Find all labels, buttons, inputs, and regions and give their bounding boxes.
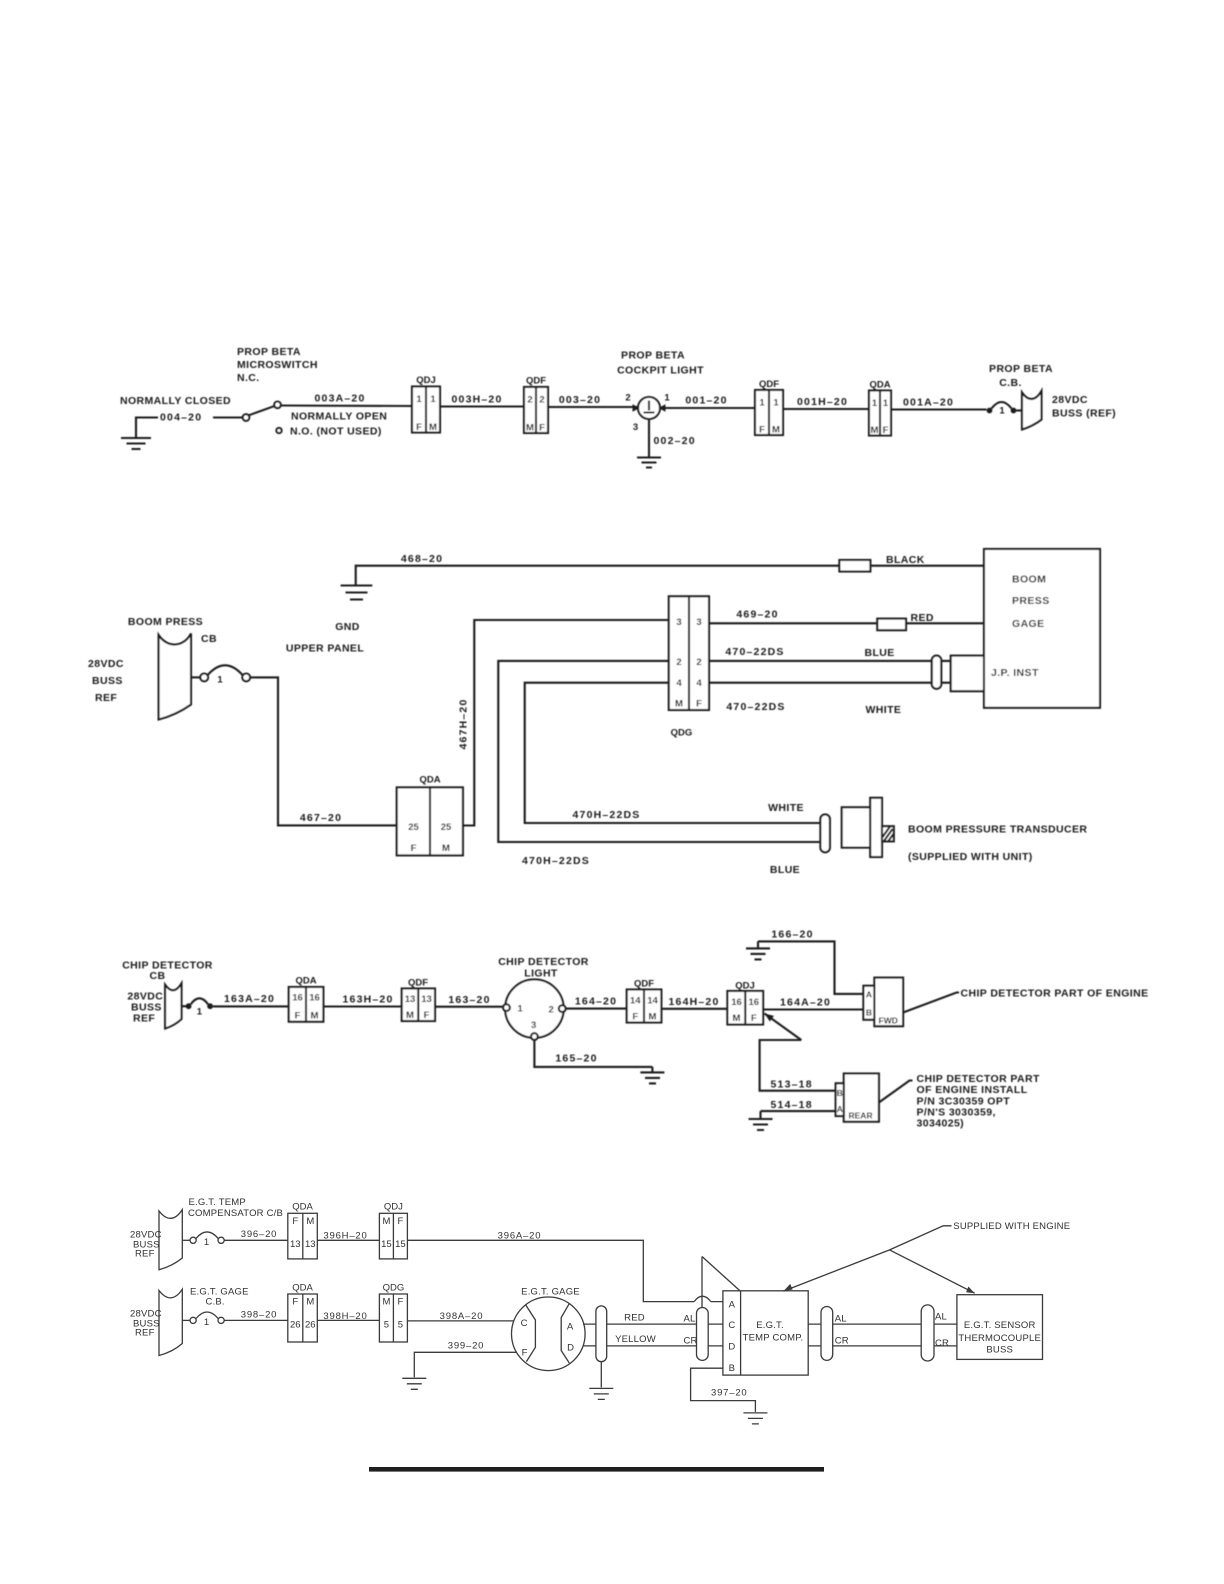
svg-text:398A–20: 398A–20 bbox=[440, 1311, 484, 1322]
wire 398-20 bbox=[224, 1319, 288, 1321]
connector QDA 16/16 bbox=[289, 976, 324, 1022]
svg-text:BOOM PRESS: BOOM PRESS bbox=[128, 616, 203, 628]
svg-text:PRESS: PRESS bbox=[1012, 595, 1050, 607]
svg-text:396H–20: 396H–20 bbox=[323, 1231, 367, 1242]
svg-text:CR: CR bbox=[684, 1336, 698, 1347]
ground (399-20) bbox=[402, 1378, 426, 1389]
E.G.T. SENSOR THERMOCOUPLE BUSS box bbox=[957, 1295, 1043, 1360]
svg-text:1: 1 bbox=[416, 394, 422, 405]
svg-text:470–22DS: 470–22DS bbox=[725, 646, 784, 658]
svg-text:163–20: 163–20 bbox=[448, 994, 490, 1006]
wire hop over shield lead bbox=[694, 1296, 711, 1301]
svg-text:QDA: QDA bbox=[292, 1282, 313, 1293]
svg-text:QDG: QDG bbox=[671, 728, 693, 739]
svg-text:396A–20: 396A–20 bbox=[498, 1231, 542, 1242]
28VDC buss bar ribbon bbox=[1022, 391, 1042, 430]
svg-text:NORMALLY OPEN: NORMALLY OPEN bbox=[291, 411, 387, 423]
svg-text:WHITE: WHITE bbox=[768, 802, 804, 814]
svg-text:3: 3 bbox=[531, 1020, 536, 1031]
svg-text:COCKPIT LIGHT: COCKPIT LIGHT bbox=[617, 365, 704, 377]
svg-text:QDF: QDF bbox=[634, 979, 654, 990]
svg-text:2: 2 bbox=[676, 657, 681, 668]
label CHIP DETECTOR LIGHT bbox=[498, 956, 589, 980]
svg-text:28VDC: 28VDC bbox=[1052, 394, 1088, 406]
svg-text:M: M bbox=[526, 423, 534, 434]
circuit breaker CHIP DETECTOR CB contact 1 bbox=[182, 998, 214, 1017]
svg-text:AL: AL bbox=[835, 1314, 847, 1325]
wire 001H-20 bbox=[783, 408, 869, 410]
svg-text:C: C bbox=[728, 1320, 735, 1331]
wire 002-20 bbox=[648, 419, 650, 457]
svg-text:QDJ: QDJ bbox=[735, 981, 755, 992]
ground (397-20) bbox=[743, 1413, 767, 1424]
svg-text:A: A bbox=[866, 990, 872, 1000]
svg-text:RED: RED bbox=[911, 612, 934, 624]
svg-text:F: F bbox=[411, 843, 417, 854]
svg-text:13: 13 bbox=[290, 1239, 301, 1250]
svg-text:26: 26 bbox=[305, 1319, 316, 1330]
page footer rule bbox=[369, 1467, 824, 1472]
svg-text:2: 2 bbox=[539, 395, 544, 406]
svg-text:16: 16 bbox=[292, 993, 303, 1004]
circuit breaker E.G.T. TEMP COMPENSATOR C/B contact 1 bbox=[182, 1232, 224, 1248]
label GND UPPER PANEL bbox=[286, 621, 364, 655]
svg-text:004–20: 004–20 bbox=[160, 412, 202, 424]
svg-text:467–20: 467–20 bbox=[300, 812, 342, 824]
svg-text:GAGE: GAGE bbox=[1012, 618, 1045, 630]
label PROP BETA COCKPIT LIGHT bbox=[617, 350, 704, 377]
svg-text:C.B.: C.B. bbox=[206, 1297, 225, 1308]
wire 164-20 bbox=[566, 1008, 627, 1010]
svg-text:BUSS: BUSS bbox=[986, 1344, 1013, 1355]
svg-text:B: B bbox=[866, 1008, 872, 1018]
svg-text:4: 4 bbox=[696, 678, 702, 689]
transducer port (hatched) bbox=[882, 826, 894, 841]
svg-text:467H–20: 467H–20 bbox=[458, 698, 470, 749]
svg-text:N.O. (NOT USED): N.O. (NOT USED) bbox=[290, 426, 382, 438]
label 28VDC BUSS REF bbox=[88, 658, 124, 704]
svg-text:J.P. INST: J.P. INST bbox=[991, 667, 1039, 679]
svg-text:M: M bbox=[306, 1216, 314, 1227]
svg-text:E.G.T. TEMP: E.G.T. TEMP bbox=[189, 1197, 246, 1208]
svg-text:MICROSWITCH: MICROSWITCH bbox=[237, 359, 318, 371]
ground (lamp pin 3) bbox=[637, 458, 661, 468]
svg-text:398H–20: 398H–20 bbox=[323, 1311, 367, 1322]
svg-text:F: F bbox=[539, 423, 545, 434]
svg-text:COMPENSATOR C/B: COMPENSATOR C/B bbox=[188, 1208, 283, 1219]
svg-text:M: M bbox=[871, 425, 879, 436]
wire 467H-20 bbox=[463, 620, 669, 826]
svg-text:QDJ: QDJ bbox=[416, 375, 436, 386]
svg-text:M: M bbox=[429, 422, 437, 433]
wire 514-18 bbox=[761, 1110, 836, 1112]
svg-text:C: C bbox=[521, 1318, 528, 1329]
connector QDJ 16/16 bbox=[727, 981, 763, 1025]
svg-text:M: M bbox=[382, 1216, 390, 1227]
svg-text:F: F bbox=[292, 1216, 298, 1227]
label PROP BETA C.B. bbox=[989, 363, 1053, 389]
svg-text:A: A bbox=[729, 1299, 736, 1310]
connector QDJ bbox=[412, 375, 440, 433]
switch N.C. contact bbox=[274, 402, 281, 409]
lamp prop beta cockpit light bbox=[633, 397, 666, 419]
svg-text:LIGHT: LIGHT bbox=[524, 968, 558, 980]
label 28VDC BUSS (REF) bbox=[1052, 394, 1116, 420]
connector QDA 13/13 bbox=[288, 1201, 318, 1259]
switch arm bbox=[249, 406, 275, 415]
label 28VDC BUSS REF bbox=[127, 991, 163, 1025]
svg-text:CHIP DETECTOR PART OF ENGI: CHIP DETECTOR PART OF ENGINE bbox=[961, 988, 1149, 1000]
wire CR: temp comp to sensor bbox=[808, 1345, 957, 1347]
svg-text:PROP BETA: PROP BETA bbox=[989, 363, 1053, 375]
svg-text:1: 1 bbox=[883, 398, 889, 409]
connector shell J.P. INST bbox=[951, 656, 984, 692]
wire red: gage A to temp comp C bbox=[583, 1323, 723, 1325]
svg-text:M: M bbox=[382, 1297, 390, 1308]
temp comp input grommet bbox=[697, 1308, 709, 1361]
wire 003H-20 bbox=[440, 405, 524, 407]
svg-text:398–20: 398–20 bbox=[241, 1310, 278, 1321]
connector REAR (engine install) bbox=[836, 1074, 879, 1122]
wire 397-20 bbox=[691, 1368, 756, 1412]
svg-text:15: 15 bbox=[395, 1239, 406, 1250]
wire 003-20 bbox=[548, 406, 638, 408]
svg-text:QDA: QDA bbox=[295, 976, 316, 987]
wire 468-20 (black) bbox=[356, 566, 984, 585]
connector FWD (engine) bbox=[863, 978, 903, 1027]
transducer flange bbox=[870, 798, 882, 857]
wire 470-22DS white bbox=[709, 682, 951, 684]
svg-text:QDF: QDF bbox=[759, 379, 779, 390]
svg-text:BUSS: BUSS bbox=[92, 675, 123, 687]
svg-text:1: 1 bbox=[872, 398, 878, 409]
ground GND upper panel bbox=[341, 586, 373, 600]
wire 163-20 bbox=[435, 1006, 505, 1008]
svg-text:1: 1 bbox=[204, 1237, 209, 1248]
label CHIP DETECTOR CB bbox=[122, 960, 213, 983]
svg-text:13: 13 bbox=[421, 994, 432, 1005]
svg-text:BLACK: BLACK bbox=[886, 554, 925, 566]
svg-text:REF: REF bbox=[133, 1013, 155, 1025]
svg-text:001–20: 001–20 bbox=[685, 395, 727, 407]
svg-text:QDA: QDA bbox=[419, 775, 440, 786]
svg-text:165–20: 165–20 bbox=[555, 1053, 597, 1065]
28VDC buss bar ribbon (row 1) bbox=[159, 1210, 182, 1270]
svg-text:M: M bbox=[675, 699, 683, 710]
svg-text:1: 1 bbox=[664, 393, 670, 404]
sensor input grommet bbox=[921, 1305, 934, 1361]
28VDC buss bar ribbon bbox=[159, 634, 191, 720]
svg-text:E.G.T. GAGE: E.G.T. GAGE bbox=[521, 1287, 580, 1298]
wire 467-20 bbox=[250, 677, 397, 825]
chip detector light bbox=[503, 979, 565, 1040]
svg-text:3: 3 bbox=[676, 617, 681, 628]
wire 396A-20 bbox=[407, 1240, 723, 1301]
svg-text:BUSS (REF): BUSS (REF) bbox=[1052, 408, 1116, 420]
svg-text:514–18: 514–18 bbox=[771, 1099, 813, 1111]
svg-text:M: M bbox=[306, 1297, 314, 1308]
svg-text:5: 5 bbox=[384, 1319, 389, 1330]
svg-text:M: M bbox=[649, 1012, 657, 1023]
svg-text:1: 1 bbox=[518, 1004, 524, 1015]
svg-text:UPPER PANEL: UPPER PANEL bbox=[286, 643, 364, 655]
svg-text:2: 2 bbox=[527, 395, 532, 406]
connector QDF bbox=[524, 376, 548, 434]
svg-text:QDA: QDA bbox=[292, 1201, 313, 1212]
svg-text:BLUE: BLUE bbox=[865, 647, 895, 659]
svg-text:513–18: 513–18 bbox=[771, 1079, 813, 1091]
svg-text:D: D bbox=[728, 1342, 735, 1353]
shield bead on red wire bbox=[877, 619, 906, 631]
BOOM PRESS GAGE box bbox=[984, 549, 1100, 708]
svg-text:F: F bbox=[424, 1010, 430, 1021]
svg-text:PROP BETA: PROP BETA bbox=[621, 350, 685, 362]
svg-text:3: 3 bbox=[633, 422, 638, 433]
svg-text:BOOM: BOOM bbox=[1012, 574, 1046, 586]
svg-text:D: D bbox=[567, 1342, 574, 1353]
switch N.O. contact bbox=[276, 428, 281, 433]
label 28VDC BUSS REF (row 1) bbox=[130, 1230, 162, 1260]
wire 396H-20 bbox=[317, 1239, 379, 1241]
svg-text:RED: RED bbox=[624, 1312, 645, 1323]
svg-text:CHIP DETECTOR: CHIP DETECTOR bbox=[498, 956, 589, 968]
svg-text:397–20: 397–20 bbox=[711, 1388, 748, 1399]
svg-text:CR: CR bbox=[935, 1338, 949, 1349]
svg-text:QDJ: QDJ bbox=[384, 1201, 403, 1212]
svg-text:WHITE: WHITE bbox=[866, 704, 902, 716]
svg-text:001H–20: 001H–20 bbox=[797, 396, 848, 408]
svg-text:REF: REF bbox=[95, 692, 117, 704]
svg-text:470H–22DS: 470H–22DS bbox=[572, 809, 640, 821]
svg-text:REF: REF bbox=[135, 1249, 155, 1260]
svg-text:F: F bbox=[696, 699, 702, 710]
svg-text:REAR: REAR bbox=[849, 1111, 873, 1121]
circuit breaker BOOM PRESS CB contact 1 bbox=[191, 665, 250, 685]
temp comp output grommet bbox=[821, 1307, 833, 1361]
svg-text:15: 15 bbox=[381, 1239, 392, 1250]
wire 469-20 (red) bbox=[709, 622, 984, 624]
svg-text:164–20: 164–20 bbox=[575, 996, 617, 1008]
svg-text:16: 16 bbox=[731, 997, 742, 1008]
label CHIP DETECTOR PART OF ENGINE INSTALL bbox=[917, 1073, 1040, 1130]
connector QDF 14/14 bbox=[627, 979, 662, 1023]
circuit breaker E.G.T. GAGE C.B. contact 1 bbox=[182, 1312, 224, 1328]
svg-text:F: F bbox=[416, 422, 422, 433]
svg-text:25: 25 bbox=[408, 822, 419, 833]
connector QDF (2nd) bbox=[755, 379, 783, 436]
svg-text:FWD: FWD bbox=[879, 1016, 898, 1026]
svg-text:003A–20: 003A–20 bbox=[314, 393, 365, 405]
svg-text:TEMP COMP.: TEMP COMP. bbox=[743, 1333, 804, 1344]
leader SUPPLIED WITH ENGINE to temp comp bbox=[784, 1226, 952, 1291]
svg-text:CB: CB bbox=[201, 633, 217, 645]
svg-text:16: 16 bbox=[749, 997, 760, 1008]
svg-text:M: M bbox=[311, 1011, 319, 1022]
svg-text:4: 4 bbox=[676, 678, 682, 689]
svg-text:14: 14 bbox=[630, 996, 641, 1007]
svg-text:468–20: 468–20 bbox=[401, 553, 443, 565]
shield diagonal to connector box bbox=[702, 1257, 740, 1292]
svg-text:OF ENGINE INSTALL: OF ENGINE INSTALL bbox=[917, 1084, 1028, 1096]
svg-text:QDF: QDF bbox=[408, 978, 428, 989]
svg-text:1: 1 bbox=[430, 394, 436, 405]
svg-text:002–20: 002–20 bbox=[654, 435, 696, 447]
wire 398H-20 bbox=[317, 1319, 379, 1321]
svg-text:B: B bbox=[729, 1363, 735, 1374]
ground (514-18) bbox=[749, 1111, 773, 1130]
connector QDG bbox=[669, 596, 709, 738]
svg-text:3: 3 bbox=[696, 617, 701, 628]
svg-text:28VDC: 28VDC bbox=[88, 658, 124, 670]
wire 163A-20 bbox=[213, 1005, 289, 1007]
svg-text:2: 2 bbox=[696, 657, 701, 668]
leader arrow from rear harness to QDJ bbox=[765, 1014, 802, 1041]
wire 004-20 bbox=[136, 418, 242, 438]
svg-text:F: F bbox=[295, 1011, 301, 1022]
svg-text:CR: CR bbox=[835, 1336, 849, 1347]
label E.G.T. TEMP COMPENSATOR C/B bbox=[188, 1197, 283, 1219]
label 28VDC BUSS REF (row 2) bbox=[130, 1309, 162, 1339]
svg-text:YELLOW: YELLOW bbox=[615, 1334, 656, 1345]
svg-text:F: F bbox=[759, 425, 765, 436]
circuit breaker PROP BETA C.B. contact 1 bbox=[987, 402, 1022, 417]
svg-text:1: 1 bbox=[999, 406, 1005, 417]
svg-text:16: 16 bbox=[309, 993, 320, 1004]
svg-text:M: M bbox=[442, 843, 450, 854]
gage output grommet bbox=[596, 1306, 607, 1362]
wire yellow: gage D to temp comp D bbox=[583, 1345, 723, 1347]
connector QDA bbox=[869, 380, 891, 437]
svg-text:GND: GND bbox=[335, 621, 360, 633]
svg-text:003–20: 003–20 bbox=[559, 394, 601, 406]
leader to CHIP DETECTOR PART OF ENGINE bbox=[903, 993, 959, 1013]
svg-text:F: F bbox=[397, 1216, 403, 1227]
wire 163H-20 bbox=[323, 1005, 401, 1007]
wire 164H-20 bbox=[661, 1008, 727, 1010]
svg-text:470H–22DS: 470H–22DS bbox=[522, 855, 590, 867]
wire QDG pin4 (white side) bbox=[525, 683, 821, 823]
label PROP BETA MICROSWITCH N.C. bbox=[237, 346, 318, 384]
svg-text:163A–20: 163A–20 bbox=[224, 993, 275, 1005]
svg-text:25: 25 bbox=[441, 822, 452, 833]
leader SUPPLIED WITH ENGINE to sensor bbox=[890, 1250, 975, 1293]
svg-text:1: 1 bbox=[217, 675, 223, 686]
svg-text:BOOM PRESSURE TRANSDUCER: BOOM PRESSURE TRANSDUCER bbox=[908, 824, 1087, 836]
E.G.T. TEMP COMP box bbox=[723, 1291, 808, 1375]
svg-text:NORMALLY CLOSED: NORMALLY CLOSED bbox=[120, 395, 231, 407]
svg-text:CB: CB bbox=[150, 970, 166, 982]
svg-text:3034025): 3034025) bbox=[917, 1118, 965, 1130]
svg-text:399–20: 399–20 bbox=[448, 1340, 485, 1351]
wire AL: temp comp to sensor bbox=[808, 1323, 957, 1325]
svg-text:2: 2 bbox=[625, 393, 630, 404]
svg-text:C.B.: C.B. bbox=[999, 377, 1022, 389]
svg-text:F: F bbox=[751, 1013, 757, 1024]
wire 398A-20 bbox=[407, 1320, 513, 1322]
svg-text:N.C.: N.C. bbox=[237, 372, 260, 384]
switch microswitch common contact bbox=[243, 414, 250, 421]
connector QDG 5/5 bbox=[379, 1282, 407, 1342]
wire 001A-20 bbox=[891, 408, 987, 410]
wire 396-20 bbox=[224, 1239, 288, 1241]
transducer grommet bbox=[820, 814, 830, 852]
svg-text:2: 2 bbox=[549, 1005, 554, 1016]
svg-text:QDA: QDA bbox=[869, 380, 890, 391]
svg-text:BLUE: BLUE bbox=[770, 864, 800, 876]
wire QDG pin2 (blue side) bbox=[498, 661, 820, 842]
svg-text:F: F bbox=[292, 1297, 298, 1308]
svg-text:CHIP DETECTOR: CHIP DETECTOR bbox=[122, 960, 213, 972]
ground (gage grommet shield) bbox=[589, 1362, 613, 1400]
svg-text:1: 1 bbox=[759, 398, 765, 409]
connector QDF 13/13 bbox=[402, 978, 435, 1022]
svg-text:M: M bbox=[406, 1010, 414, 1021]
svg-text:166–20: 166–20 bbox=[771, 929, 813, 941]
svg-text:26: 26 bbox=[290, 1319, 301, 1330]
svg-text:1: 1 bbox=[204, 1317, 209, 1328]
shield lead from grommet bbox=[701, 1257, 703, 1308]
wire 165-20 bbox=[534, 1040, 652, 1067]
svg-text:E.G.T.: E.G.T. bbox=[756, 1320, 784, 1331]
wire 166-20 bbox=[758, 941, 863, 994]
svg-text:001A–20: 001A–20 bbox=[903, 397, 954, 409]
svg-text:469–20: 469–20 bbox=[736, 609, 778, 621]
wire 399-20 bbox=[414, 1352, 516, 1377]
label E.G.T. GAGE C.B. bbox=[190, 1287, 249, 1308]
leader to CHIP DETECTOR PART OF ENGINE INSTALL bbox=[879, 1081, 913, 1103]
E.G.T. gage dial bbox=[512, 1297, 586, 1371]
connector grommet at J.P. INST bbox=[932, 656, 942, 689]
svg-text:AL: AL bbox=[935, 1311, 947, 1322]
svg-text:SUPPLIED WITH ENGINE: SUPPLIED WITH ENGINE bbox=[953, 1221, 1070, 1232]
transducer body bbox=[842, 807, 871, 847]
svg-text:14: 14 bbox=[647, 996, 658, 1007]
svg-text:F: F bbox=[522, 1348, 528, 1359]
connector QDA 25/25 bbox=[397, 775, 463, 856]
svg-text:QDG: QDG bbox=[383, 1282, 405, 1293]
svg-text:164A–20: 164A–20 bbox=[780, 997, 831, 1009]
svg-text:164H–20: 164H–20 bbox=[668, 996, 719, 1008]
28VDC buss bar ribbon (row 2) bbox=[159, 1289, 182, 1355]
svg-text:B: B bbox=[837, 1088, 843, 1098]
svg-text:F: F bbox=[883, 425, 889, 436]
ground (165-20) bbox=[640, 1067, 664, 1084]
svg-text:M: M bbox=[772, 425, 780, 436]
ground (normally closed leg) bbox=[121, 438, 151, 449]
wire 001-20 bbox=[660, 407, 755, 409]
svg-text:A: A bbox=[567, 1321, 574, 1332]
shield bead on black wire bbox=[839, 560, 870, 572]
svg-text:396–20: 396–20 bbox=[241, 1229, 278, 1240]
wire 470-22DS blue bbox=[709, 660, 951, 662]
svg-text:(SUPPLIED WITH UNIT): (SUPPLIED WITH UNIT) bbox=[908, 851, 1033, 863]
svg-text:PROP BETA: PROP BETA bbox=[237, 346, 301, 358]
28VDC buss bar ribbon bbox=[165, 983, 181, 1028]
svg-text:1: 1 bbox=[773, 398, 779, 409]
svg-text:REF: REF bbox=[135, 1328, 155, 1339]
svg-text:003H–20: 003H–20 bbox=[451, 394, 502, 406]
connector QDA 26/26 bbox=[288, 1282, 318, 1342]
svg-text:QDF: QDF bbox=[526, 376, 546, 387]
svg-text:E.G.T. SENSOR: E.G.T. SENSOR bbox=[964, 1320, 1036, 1331]
svg-text:F: F bbox=[397, 1297, 403, 1308]
svg-text:5: 5 bbox=[398, 1319, 403, 1330]
svg-text:13: 13 bbox=[305, 1239, 316, 1250]
wire 513-18 bbox=[760, 1040, 836, 1091]
svg-text:470–22DS: 470–22DS bbox=[726, 701, 785, 713]
svg-text:THERMOCOUPLE: THERMOCOUPLE bbox=[958, 1333, 1041, 1344]
ground (166-20) bbox=[746, 941, 770, 959]
